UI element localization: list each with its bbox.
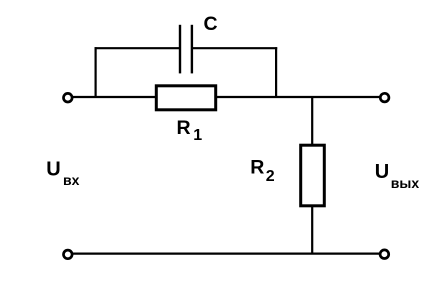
svg-text:C: C — [204, 13, 218, 35]
label U_вых (output voltage) — [375, 161, 420, 191]
capacitor C plates — [180, 25, 192, 74]
wire: main top rail (input node to output terminal) — [73, 96, 381, 98]
wire: capacitor branch top rail right segment — [192, 47, 277, 49]
terminal: output bottom-right — [380, 250, 389, 259]
wire: R2 branch vertical (node to bottom rail) — [311, 96, 313, 255]
terminal: input bottom-left — [64, 250, 73, 259]
svg-text:1: 1 — [193, 127, 202, 144]
label R2 (resistor designator) — [250, 156, 274, 185]
wire: bottom rail — [73, 253, 380, 255]
wire: capacitor branch right vertical — [275, 47, 277, 98]
wire: capacitor branch left vertical — [94, 47, 96, 98]
resistor R1 body — [156, 86, 215, 110]
svg-text:вых: вых — [391, 175, 420, 191]
wire: capacitor branch top rail left segment — [95, 47, 181, 49]
svg-text:вх: вх — [63, 172, 80, 188]
svg-text:U: U — [375, 161, 389, 183]
terminal: input top-left — [64, 93, 73, 102]
terminal: output top-right — [380, 93, 389, 102]
svg-text:R: R — [250, 156, 264, 178]
svg-text:2: 2 — [266, 168, 275, 185]
resistor R2 body — [301, 145, 325, 206]
label R1 (resistor designator) — [177, 117, 203, 144]
svg-text:U: U — [46, 159, 60, 181]
label U_вх (input voltage) — [46, 159, 79, 188]
svg-text:R: R — [177, 117, 191, 139]
